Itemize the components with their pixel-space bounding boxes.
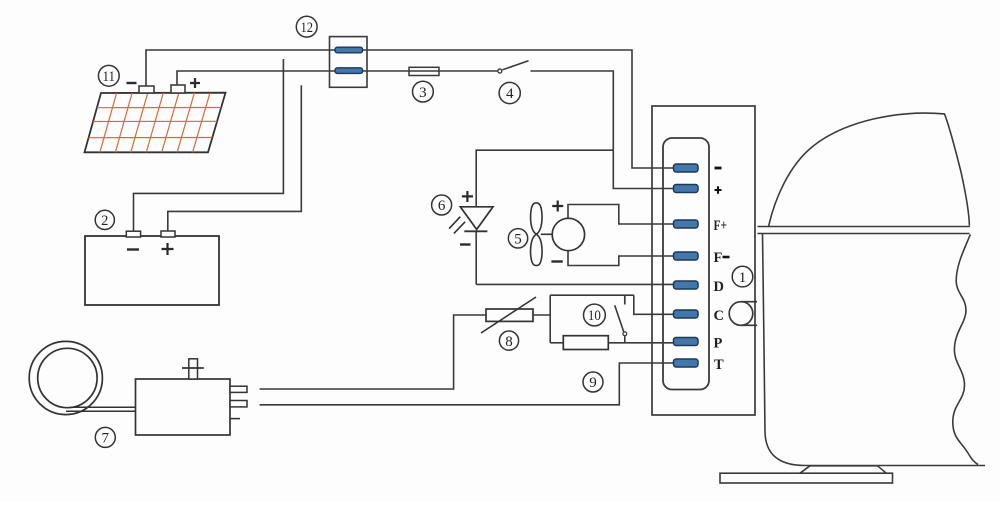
- svg-text:11: 11: [103, 69, 116, 85]
- wire: unit 7 top pin to thermistor 8: [260, 315, 486, 389]
- electronic unit 7 box: [136, 379, 231, 435]
- fan motor plus sign: [552, 201, 563, 212]
- callout circle 2: [95, 210, 114, 229]
- compressor shell left edge and bottom: [763, 234, 986, 466]
- LED D6 plus sign: [462, 191, 473, 202]
- thermostat S10 fixed contact stub: [624, 295, 626, 304]
- fuse block box (item 12): [330, 37, 368, 88]
- panel negative terminal lug: [139, 86, 154, 93]
- resistor R9 body: [563, 336, 608, 350]
- callout circle 11: [98, 65, 119, 86]
- wire: switch 4 to controller "+" terminal: [531, 71, 675, 189]
- wire: battery plus riser: [168, 85, 301, 231]
- unit 7 spade pin 1: [230, 386, 247, 392]
- svg-text:F: F: [714, 250, 723, 266]
- battery minus sign: [127, 248, 139, 250]
- unit 7 spade pin 2: [230, 401, 247, 407]
- svg-text:3: 3: [419, 85, 427, 101]
- capillary tube to unit box: [66, 407, 136, 411]
- svg-text:7: 7: [102, 431, 110, 447]
- wire: panel minus rail to controller "-" terminal: [146, 50, 674, 168]
- electronic control unit 7 coil inner turn: [38, 348, 97, 407]
- wire: fan motor plus to F+ terminal: [568, 205, 674, 225]
- svg-text:10: 10: [588, 308, 601, 324]
- callout circle 5: [508, 229, 527, 248]
- unit 7 pin 3 stub: [230, 418, 240, 420]
- solar panel PV11 outline: [85, 78, 226, 152]
- battery B2 case: [85, 236, 219, 305]
- callout circle 9: [583, 372, 603, 392]
- terminal label "-": [715, 167, 722, 170]
- fuse holder bar 2 in block 12: [335, 68, 363, 74]
- thermostat S10 pivot circle: [623, 332, 627, 336]
- svg-text:9: 9: [589, 375, 597, 391]
- LED D6 light rays: [449, 217, 465, 234]
- compressor dome top: [769, 113, 970, 226]
- panel plus sign: [190, 78, 200, 88]
- relay cover capsule on controller edge: [729, 302, 757, 326]
- svg-text:1: 1: [739, 270, 747, 286]
- solar panel orange cell grid: [89, 93, 222, 153]
- callout circle 4: [499, 82, 520, 103]
- compressor mounting foot right slant: [878, 466, 887, 473]
- thermostat S10 blade: [615, 305, 624, 332]
- svg-text:2: 2: [101, 213, 108, 229]
- svg-text:T: T: [714, 357, 724, 373]
- wire: resistor 9 to P terminal: [608, 342, 674, 344]
- callout circle 10: [584, 304, 606, 326]
- wire: unit 7 lower pin to T terminal: [260, 363, 674, 405]
- controller U1 outer box: [652, 106, 755, 415]
- callout circle 3: [413, 81, 434, 102]
- terminal bar D: [674, 281, 699, 289]
- unit 7 top bolt terminal: [189, 359, 198, 379]
- compressor mounting foot left slant: [800, 466, 810, 473]
- terminal bar F+: [674, 220, 699, 228]
- battery plus sign: [162, 243, 174, 255]
- terminal bar F-: [674, 252, 699, 260]
- fuse F3: [409, 67, 439, 75]
- switch S4 pivot contact: [498, 69, 502, 73]
- panel minus sign: [127, 82, 137, 84]
- wire: fan motor minus to F- terminal: [568, 251, 674, 266]
- thermistor R8 body: [486, 309, 533, 321]
- callout circle 12: [296, 16, 317, 37]
- terminal bar C: [674, 310, 699, 318]
- terminal bar "+": [674, 185, 699, 193]
- svg-text:D: D: [714, 279, 724, 295]
- svg-text:12: 12: [300, 20, 313, 36]
- wire: bottom rail to resistor 9: [550, 342, 563, 344]
- wire: thermostat box top edge: [550, 294, 634, 296]
- svg-text:6: 6: [438, 198, 446, 214]
- wire: D rail to controller D terminal: [476, 283, 674, 285]
- svg-text:P: P: [714, 336, 723, 352]
- svg-text:4: 4: [506, 86, 514, 102]
- LED D6 minus sign: [460, 243, 471, 245]
- wire: switch 10 pivot drop: [624, 336, 626, 343]
- terminal label "+": [715, 186, 722, 193]
- callout circle 8: [499, 331, 518, 350]
- terminal bar "-": [674, 164, 699, 172]
- fan M5 shaft: [541, 233, 552, 235]
- compressor mounting foot top edge: [810, 465, 878, 467]
- svg-text:8: 8: [505, 334, 513, 350]
- thermistor R8 diagonal stroke: [481, 297, 536, 333]
- fuse holder bar 1 in block 12: [335, 47, 363, 53]
- svg-text:5: 5: [514, 232, 522, 248]
- compressor band upper line: [758, 226, 971, 228]
- callout circle 6: [432, 195, 452, 215]
- LED D6 triangle: [460, 207, 493, 230]
- fan M5 lower blade: [531, 234, 543, 265]
- compressor body: [720, 113, 985, 483]
- wire: panel plus up to fuse row: [177, 71, 498, 85]
- switch S4 blade: [503, 61, 529, 70]
- wire: thermistor 8 to thermostat network: [533, 314, 550, 316]
- fan motor circle: [552, 218, 584, 250]
- compressor base plate: [720, 473, 893, 483]
- compressor band lower line: [758, 233, 970, 235]
- fan M5 upper blade: [531, 203, 543, 234]
- LED D6 cathode bar: [464, 230, 487, 232]
- panel positive terminal lug: [171, 85, 185, 93]
- callout circle 7: [95, 427, 115, 447]
- terminal strip rounded housing: [663, 138, 709, 390]
- wire: LED cathode down to D rail: [475, 231, 477, 284]
- unit 7 top bolt cross line: [182, 367, 204, 369]
- fan motor minus sign: [551, 260, 562, 262]
- wire: thermostat box right edge to C wire: [634, 295, 674, 314]
- compressor torn right edge: [953, 235, 978, 465]
- terminal bar T: [674, 359, 699, 367]
- callout circle 1: [732, 266, 753, 287]
- svg-text:C: C: [714, 308, 724, 324]
- wire: battery minus riser: [134, 59, 284, 231]
- battery positive terminal lug: [161, 231, 175, 237]
- battery negative terminal lug: [126, 231, 140, 237]
- electronic control unit 7 coil outer turn: [29, 341, 102, 414]
- terminal bar P: [674, 338, 699, 346]
- svg-text:F+: F+: [714, 218, 728, 234]
- wire: LED branch top from + rail: [476, 150, 613, 207]
- wire: thermostat box left edge: [549, 295, 551, 343]
